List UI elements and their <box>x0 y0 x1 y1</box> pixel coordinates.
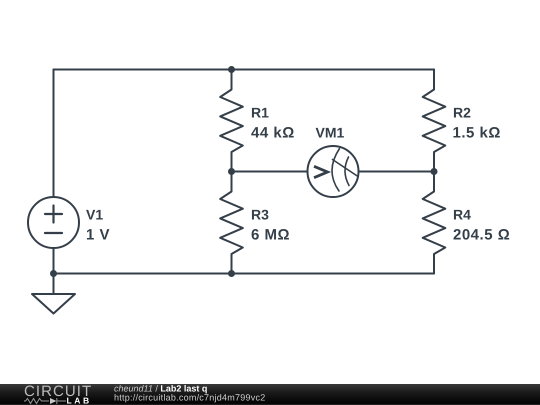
svg-text:VM1: VM1 <box>316 125 345 141</box>
wire top horizontal <box>54 69 435 71</box>
wire ground lead <box>53 274 55 295</box>
svg-text:6 MΩ: 6 MΩ <box>251 227 290 244</box>
svg-text:R2: R2 <box>453 105 471 121</box>
voltage source V1 <box>28 197 79 248</box>
svg-text:44 kΩ: 44 kΩ <box>251 125 295 142</box>
node bottom middle <box>228 270 235 277</box>
node middle right <box>431 168 438 175</box>
node top middle <box>228 66 235 73</box>
wire middle right (voltmeter to right column) <box>359 171 435 173</box>
svg-text:1.5 kΩ: 1.5 kΩ <box>453 125 501 142</box>
resistor R3 <box>220 172 243 274</box>
ground <box>32 294 75 314</box>
logo diode triangle <box>50 398 57 404</box>
resistor R4 <box>423 172 446 274</box>
svg-text:1 V: 1 V <box>86 227 110 244</box>
svg-text:LAB: LAB <box>67 395 92 405</box>
svg-text:R3: R3 <box>251 207 269 223</box>
svg-text:V1: V1 <box>86 207 103 223</box>
wire bottom horizontal <box>54 273 435 275</box>
resistor R2 <box>423 70 446 172</box>
svg-text:R1: R1 <box>251 105 269 121</box>
logo resistor zigzag and diode <box>24 398 66 404</box>
wire left vertical (V1 top lead) <box>53 70 55 198</box>
svg-text:R4: R4 <box>453 207 471 223</box>
wire middle left (node to voltmeter) <box>232 171 308 173</box>
node bottom left <box>50 270 57 277</box>
wire V1 bottom lead <box>53 248 55 274</box>
resistor R1 <box>220 70 243 172</box>
node middle middle <box>228 168 235 175</box>
voltmeter VM1 <box>308 146 359 197</box>
svg-text:http://circuitlab.com/c7njd4m7: http://circuitlab.com/c7njd4m799vc2 <box>114 393 265 403</box>
svg-text:204.5 Ω: 204.5 Ω <box>453 227 510 244</box>
